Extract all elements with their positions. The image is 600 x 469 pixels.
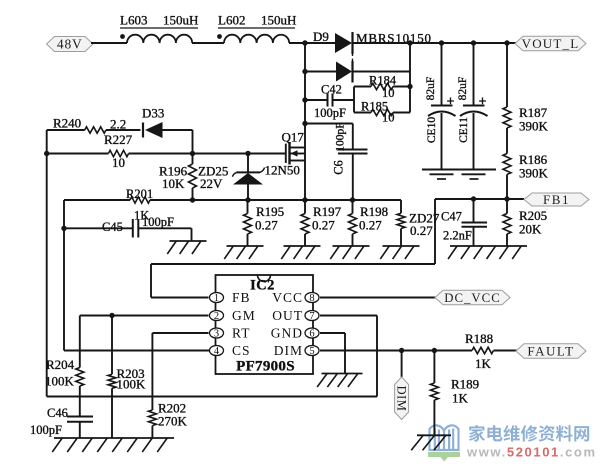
wire R188 to FAULT <box>494 350 518 352</box>
ground for R189 <box>417 434 451 436</box>
junction dots gate row <box>44 151 251 156</box>
label L602 150uH <box>218 13 296 29</box>
svg-text:0.27: 0.27 <box>410 223 433 238</box>
wire FB1 to IC pin1 route <box>151 199 435 298</box>
svg-text:20K: 20K <box>519 222 542 237</box>
svg-text:L603: L603 <box>120 13 147 28</box>
top rail wire to VOUT_L <box>353 42 517 44</box>
svg-text:L602: L602 <box>218 13 245 28</box>
svg-text:VCC: VCC <box>272 290 303 305</box>
svg-text:R189: R189 <box>451 377 479 392</box>
svg-text:150uH: 150uH <box>163 13 198 28</box>
watermark book base <box>428 452 460 462</box>
net flag FAULT <box>516 344 586 359</box>
gate row wire y153.5 with R227 in series <box>47 153 286 155</box>
svg-text:100K: 100K <box>45 374 75 389</box>
wire pin2 GM row <box>80 315 209 317</box>
resistor R198 <box>349 200 357 246</box>
junction dots FB1 row <box>471 196 510 201</box>
net flag VOUT_L <box>515 36 586 51</box>
svg-text:C45: C45 <box>102 220 123 234</box>
wire 48V to L603 <box>91 42 127 44</box>
diode D9 (top) <box>335 32 353 54</box>
resistor R203 <box>108 316 116 439</box>
capacitor C46 <box>67 417 93 439</box>
svg-text:1K: 1K <box>452 391 469 406</box>
svg-text:D33: D33 <box>142 106 164 121</box>
svg-text:C46: C46 <box>47 406 68 420</box>
junction dots on top rail <box>407 40 509 45</box>
capacitor C47 <box>462 199 488 246</box>
resistor R201 <box>130 197 150 203</box>
pin 4 (CS) <box>210 343 251 358</box>
pin 5 (DIM) <box>274 343 319 358</box>
resistor R205 <box>503 199 511 246</box>
R240/D33 row <box>47 130 193 154</box>
transistor Q17 (MOSFET) <box>286 142 305 165</box>
svg-text:+: + <box>447 95 455 110</box>
svg-text:DC_VCC: DC_VCC <box>444 291 501 305</box>
wire L603 to L602 <box>192 42 224 44</box>
svg-text:FB: FB <box>232 290 251 305</box>
junction dots sense row <box>190 197 355 202</box>
svg-text:PF7900S: PF7900S <box>236 359 295 375</box>
watermark book icon <box>430 425 459 450</box>
wire CS bus x64 <box>64 200 210 351</box>
svg-text:R204: R204 <box>46 357 75 372</box>
wire snubber left bus <box>353 87 355 113</box>
inductor L603 <box>120 34 192 43</box>
svg-text:22V: 22V <box>200 176 223 191</box>
zener diode ZD25 <box>233 154 265 201</box>
wire pin1 FB <box>151 297 209 299</box>
svg-text:C42: C42 <box>321 83 342 97</box>
junction dot C45 tap <box>61 226 66 231</box>
junction node at x305 top rail <box>302 40 307 45</box>
wire L602 to node D9 anode <box>289 42 335 44</box>
svg-text:IC2: IC2 <box>250 278 275 294</box>
net flag DC_VCC <box>435 290 510 305</box>
svg-text:FAULT: FAULT <box>527 343 574 358</box>
svg-text:CS: CS <box>232 343 251 358</box>
svg-text:390K: 390K <box>519 166 549 181</box>
resistor R185 <box>354 109 410 115</box>
watermark site name <box>469 425 589 442</box>
svg-text:R201: R201 <box>126 187 153 201</box>
svg-text:10K: 10K <box>162 176 185 191</box>
svg-text:OUT: OUT <box>272 308 303 323</box>
net flag 48V <box>47 37 94 52</box>
ground for R197 <box>284 245 321 247</box>
resistor R188 <box>472 347 494 353</box>
svg-text:0.27: 0.27 <box>255 218 278 233</box>
svg-text:8: 8 <box>309 293 314 304</box>
svg-text:82uF: 82uF <box>457 77 469 101</box>
resistor R197 <box>301 200 309 246</box>
resistor R189 <box>430 351 438 436</box>
capacitor CE11 (82uF electrolytic) <box>460 43 488 170</box>
svg-text:FB1: FB1 <box>543 192 570 207</box>
svg-text:www.520101.com: www.520101.com <box>466 445 597 460</box>
sense row wire y200 <box>64 199 401 201</box>
svg-text:GND: GND <box>271 326 303 341</box>
resistor R202 <box>148 333 156 438</box>
wire pin8 VCC to DC_VCC <box>320 297 436 299</box>
svg-text:0.27: 0.27 <box>312 218 335 233</box>
svg-text:5: 5 <box>309 346 314 357</box>
svg-text:6: 6 <box>309 329 314 340</box>
pin 8 (VCC) <box>272 290 319 305</box>
svg-text:100pF: 100pF <box>314 106 346 120</box>
svg-text:Q17: Q17 <box>282 130 305 145</box>
resistor R204 <box>76 316 84 417</box>
pin 2 (GM) <box>210 308 256 323</box>
junction dot x410/R184 <box>407 84 412 89</box>
label L603 150uH <box>120 13 198 29</box>
pin 3 (RT) <box>210 326 251 341</box>
resistor R227 <box>108 150 128 156</box>
svg-text:270K: 270K <box>158 414 188 429</box>
svg-text:R188: R188 <box>465 331 493 346</box>
wire cathode vertical x410 <box>409 43 411 113</box>
capacitor C6 <box>305 124 368 201</box>
wire pin6 GND route <box>320 333 345 374</box>
wire pin7 OUT route <box>47 316 377 397</box>
svg-text:10: 10 <box>112 155 125 170</box>
svg-text:150uH: 150uH <box>261 13 296 28</box>
ground for ZD27 <box>383 245 420 247</box>
svg-text:2.2: 2.2 <box>110 117 126 132</box>
ground for C45 <box>170 240 207 242</box>
ground for R195 <box>227 245 264 247</box>
svg-text:82uF: 82uF <box>425 77 437 101</box>
inductor L602 <box>217 34 289 43</box>
svg-text:12N50: 12N50 <box>265 163 300 178</box>
svg-text:3: 3 <box>214 329 219 340</box>
pin 6 (GND) <box>271 326 319 341</box>
resistor R184 <box>354 83 410 89</box>
svg-text:R240: R240 <box>53 116 81 131</box>
svg-text:GM: GM <box>232 308 256 323</box>
net flag FB1 <box>524 193 589 206</box>
pin 1 (FB) <box>210 290 251 305</box>
svg-text:C47: C47 <box>441 210 462 224</box>
capacitor C45 <box>64 219 192 241</box>
svg-text:1K: 1K <box>475 356 492 371</box>
svg-text:2.2nF: 2.2nF <box>443 229 472 243</box>
svg-text:D9: D9 <box>313 29 329 44</box>
svg-text:DIM: DIM <box>394 386 408 412</box>
svg-text:CE11: CE11 <box>458 117 470 143</box>
junction dots DIM row <box>399 348 437 353</box>
svg-text:100K: 100K <box>117 377 147 392</box>
wire left vertical x46.7 (gate drive bus) <box>46 130 48 397</box>
resistor R195 <box>244 200 252 246</box>
capacitor CE10 (82uF electrolytic) <box>428 43 456 170</box>
ground for C47/R205 <box>450 245 527 247</box>
svg-text:0.27: 0.27 <box>359 218 382 233</box>
wire pin3 RT <box>152 332 208 334</box>
diode D33 <box>143 122 163 138</box>
capacitor C42 <box>305 94 354 107</box>
pin 7 (OUT) <box>272 308 319 323</box>
svg-text:2: 2 <box>214 311 219 322</box>
svg-text:1: 1 <box>214 293 219 304</box>
svg-text:VOUT_L: VOUT_L <box>522 36 580 51</box>
net flag DIM (vertical) <box>394 351 408 420</box>
op-amp/controller IC2 box <box>216 275 314 374</box>
svg-text:CE10: CE10 <box>426 117 438 143</box>
svg-text:RT: RT <box>232 326 250 341</box>
diode D9 lower half (dual diode) <box>305 53 410 83</box>
node FB1 row wire <box>435 198 524 200</box>
ground for pin6 <box>322 373 363 375</box>
wire vertical node x305 (L602/D9 junction down to source row) <box>304 43 306 200</box>
svg-text:4: 4 <box>214 346 220 357</box>
resistor R187 <box>503 43 511 154</box>
junction dot R203 tap <box>109 313 114 318</box>
svg-text:DIM: DIM <box>274 343 303 358</box>
junction dots on x305 vertical <box>302 69 307 126</box>
resistor R186 <box>503 154 511 200</box>
ground for CE10/CE11 (earth bars) <box>422 170 496 180</box>
wire pin5 DIM row <box>320 350 472 352</box>
svg-text:100pF: 100pF <box>30 423 62 437</box>
svg-text:R227: R227 <box>104 132 133 147</box>
svg-text:7: 7 <box>309 311 314 322</box>
svg-text:100pF: 100pF <box>142 215 174 229</box>
svg-text:+: + <box>479 95 487 110</box>
resistor R196 <box>189 154 197 201</box>
svg-text:48V: 48V <box>57 36 83 51</box>
ground bottom-left common <box>54 437 174 439</box>
ground for R198 <box>333 245 370 247</box>
svg-text:100pF: 100pF <box>335 122 347 151</box>
svg-text:390K: 390K <box>519 119 549 134</box>
svg-text:10: 10 <box>382 111 395 125</box>
svg-text:10: 10 <box>382 86 395 100</box>
zener ZD27 <box>397 200 405 246</box>
resistor R240 <box>85 127 106 133</box>
svg-text:C6: C6 <box>332 160 346 175</box>
